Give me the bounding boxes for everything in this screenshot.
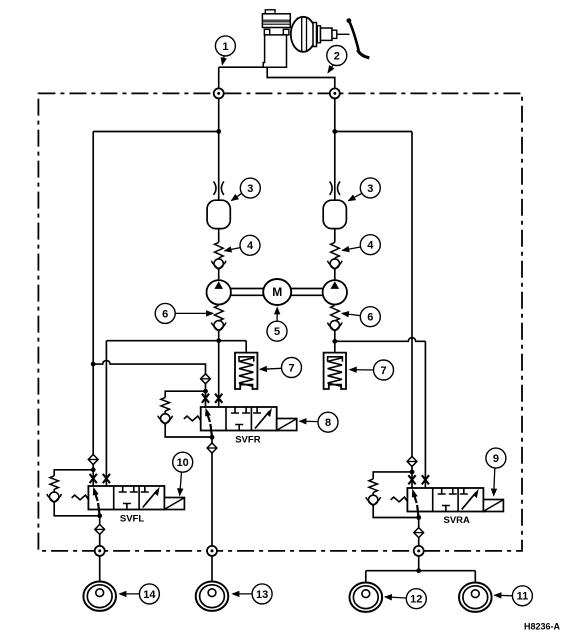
svg-text:SVFL: SVFL <box>120 514 144 525</box>
svg-text:4: 4 <box>247 240 254 252</box>
svg-text:8: 8 <box>325 417 331 429</box>
svg-text:7: 7 <box>288 362 294 374</box>
svg-text:10: 10 <box>177 457 189 469</box>
svg-text:14: 14 <box>143 589 156 601</box>
svg-text:13: 13 <box>256 589 268 601</box>
svg-text:11: 11 <box>517 591 529 603</box>
svg-text:M: M <box>272 285 282 299</box>
svg-text:2: 2 <box>334 50 340 62</box>
svg-text:1: 1 <box>222 41 228 53</box>
svg-text:6: 6 <box>367 312 373 324</box>
svg-text:7: 7 <box>380 365 386 377</box>
svg-text:SVRA: SVRA <box>443 515 470 526</box>
svg-text:3: 3 <box>247 183 253 195</box>
svg-text:H8236-A: H8236-A <box>524 622 561 632</box>
svg-text:4: 4 <box>367 240 374 252</box>
svg-text:SVFR: SVFR <box>235 434 260 445</box>
svg-text:9: 9 <box>493 453 499 465</box>
svg-text:12: 12 <box>410 594 422 606</box>
svg-text:3: 3 <box>367 183 373 195</box>
svg-text:6: 6 <box>162 308 168 320</box>
svg-text:5: 5 <box>274 326 280 338</box>
